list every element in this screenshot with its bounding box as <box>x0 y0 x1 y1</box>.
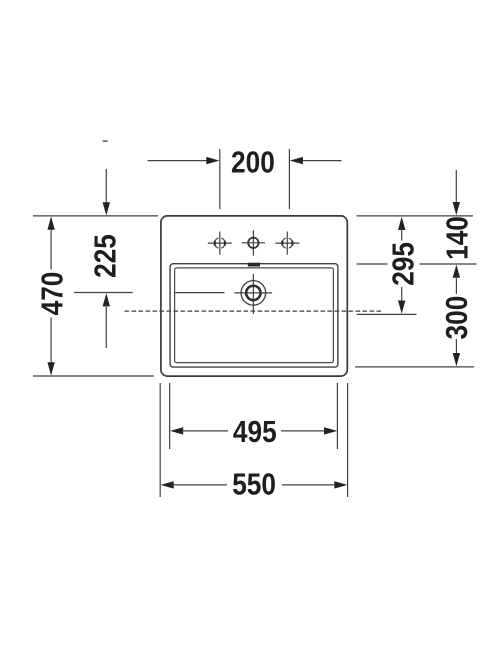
svg-text:225: 225 <box>88 234 122 278</box>
svg-text:495: 495 <box>233 415 277 449</box>
svg-text:470: 470 <box>35 272 69 316</box>
svg-text:295: 295 <box>387 242 421 286</box>
svg-text:140: 140 <box>440 216 474 260</box>
svg-text:300: 300 <box>440 296 474 340</box>
svg-text:550: 550 <box>232 467 276 501</box>
svg-text:200: 200 <box>231 146 275 180</box>
